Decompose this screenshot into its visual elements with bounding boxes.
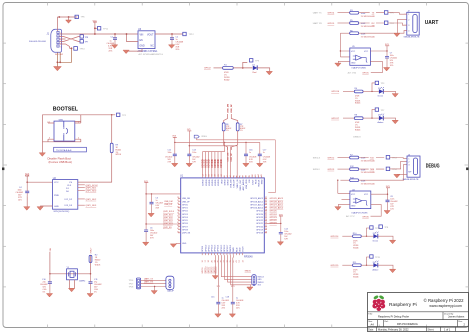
svg-text:3V3: 3V3 (258, 284, 261, 286)
svg-text:GND: GND (351, 206, 356, 208)
svg-text:46: 46 (177, 225, 179, 227)
svg-text:VCC: VCC (351, 51, 356, 53)
svg-text:GPIO6: GPIO6 (182, 223, 188, 225)
ground U4 (338, 205, 350, 207)
led row DBG green (331, 226, 396, 250)
wire USB_DM USB_DP to chip (227, 147, 230, 178)
LED D1 power led row (204, 59, 272, 82)
svg-text:25: 25 (265, 216, 267, 218)
svg-text:1: 1 (61, 33, 62, 35)
wire top pin stubs (203, 176, 262, 178)
svg-text:GND: GND (239, 247, 241, 252)
svg-text:QSPI_SD2: QSPI_SD2 (86, 199, 97, 201)
svg-text:SWDIO: SWDIO (313, 169, 320, 171)
ground under C4 (26, 196, 28, 207)
svg-text:GPIO6: GPIO6 (362, 216, 369, 218)
svg-text:A4: A4 (371, 322, 375, 326)
svg-text:SWD: SWD (262, 179, 264, 184)
test point TP7 (372, 110, 375, 119)
capacitor C10 (48, 282, 52, 284)
wire GND pin to ground (127, 49, 143, 52)
svg-text:USB_DM: USB_DM (164, 201, 173, 203)
svg-text:1u: 1u (263, 152, 265, 154)
svg-text:SWCLK: SWCLK (313, 157, 321, 159)
svg-text:GPIO4: GPIO4 (182, 217, 188, 219)
flash U2 (16, 173, 112, 213)
qspi net labels (78, 185, 85, 205)
svg-text:53: 53 (177, 206, 179, 208)
svg-text:EN: EN (140, 40, 144, 42)
svg-text:21: 21 (265, 225, 267, 227)
wire to ground (257, 68, 270, 72)
svg-text:Green: Green (378, 96, 384, 98)
svg-text:1% W1DS E0446: 1% W1DS E0446 (361, 16, 375, 18)
svg-text:GPIO11: GPIO11 (208, 267, 210, 274)
svg-text:50: 50 (177, 216, 179, 218)
wire IOVDD rail (203, 142, 225, 151)
svg-text:Amber: Amber (373, 268, 379, 271)
title block (368, 293, 469, 332)
svg-text:C18: C18 (226, 297, 229, 299)
DEBUG section (313, 137, 440, 186)
svg-text:1% W1DS E0446: 1% W1DS E0446 (361, 183, 375, 185)
svg-text:XOUT: XOUT (252, 179, 254, 185)
svg-text:GPIO5: GPIO5 (328, 23, 335, 25)
svg-text:GPIO20: GPIO20 (256, 226, 263, 228)
svg-text:GPIO26_ADC0: GPIO26_ADC0 (250, 207, 263, 210)
svg-text:W1DS: W1DS (95, 265, 101, 267)
svg-text:GND: GND (54, 206, 59, 208)
svg-text:ALT: NCV8164ASN330T1G: ALT: NCV8164ASN330T1G (139, 53, 164, 56)
test point TP6 (75, 15, 78, 18)
svg-text:VCC: VCC (351, 194, 356, 196)
UART section (313, 10, 439, 39)
uart pads connector J4 (129, 276, 175, 294)
svg-text:W25Q16JVUXIQ: W25Q16JVUXIQ (54, 211, 70, 213)
svg-text:IOVDD: IOVDD (215, 179, 217, 186)
svg-text:TP10: TP10 (80, 49, 86, 51)
svg-text:GPIO22: GPIO22 (256, 220, 263, 222)
svg-text:QSPI_SD0: QSPI_SD0 (163, 218, 174, 220)
svg-text:51: 51 (177, 213, 179, 215)
svg-text:UART_RX: UART_RX (144, 281, 154, 284)
svg-text:10%: 10% (390, 208, 394, 210)
resistor R6 (222, 123, 225, 131)
capacitor C11 (89, 282, 93, 284)
svg-text:48: 48 (177, 219, 179, 221)
svg-text:BOOTSEL: BOOTSEL (53, 106, 79, 112)
test point TP11 (95, 27, 97, 29)
svg-text:GPIO12: GPIO12 (212, 244, 214, 252)
svg-text:QSPI_SD3: QSPI_SD3 (86, 205, 97, 207)
svg-text:GPIO29_ADC3: GPIO29_ADC3 (270, 197, 285, 200)
svg-text:100R: 100R (361, 158, 366, 160)
svg-text:28: 28 (265, 209, 267, 211)
svg-text:20: 20 (265, 228, 267, 230)
svg-text:DVDD: DVDD (228, 179, 230, 185)
test point TP10 (367, 228, 370, 236)
svg-text:20%: 20% (236, 308, 240, 310)
wire and ground (383, 91, 395, 93)
output loop to GPIO5 label (370, 61, 382, 72)
svg-text:3: 3 (49, 138, 50, 140)
capacitor C13 (187, 154, 191, 156)
svg-text:SWD: SWD (233, 247, 235, 252)
svg-text:IOVDD: IOVDD (218, 179, 220, 186)
svg-text:GPIO15: GPIO15 (221, 244, 223, 252)
test point TP15 (367, 257, 370, 265)
svg-text:(Forces USB Boot): (Forces USB Boot) (49, 160, 73, 164)
ground U5 (338, 61, 350, 63)
test point TP5 (384, 11, 388, 15)
svg-text:USB_DM: USB_DM (227, 104, 229, 113)
svg-text:GPIO10: GPIO10 (205, 244, 207, 252)
wires (141, 280, 166, 286)
svg-text:VDD: VDD (221, 179, 223, 184)
svg-text:20%: 20% (176, 49, 180, 51)
svg-text:1% W1DS E0446: 1% W1DS E0446 (361, 161, 375, 163)
svg-text:100n: 100n (168, 152, 172, 154)
svg-text:47: 47 (177, 222, 179, 224)
wire VBUS from J1 pin1 up (58, 17, 78, 31)
svg-text:74AUP1T57GW6: 74AUP1T57GW6 (351, 212, 368, 215)
svg-text:GPIO5: GPIO5 (362, 73, 369, 75)
wires down to resistors (224, 114, 238, 123)
svg-text:SWCLK: SWCLK (230, 244, 232, 252)
wire bottom loop (43, 115, 81, 142)
ground J3 (397, 173, 407, 175)
svg-text:CLK: CLK (67, 185, 72, 187)
svg-text:GND: GND (140, 46, 145, 48)
svg-text:SWDIO: SWDIO (245, 271, 252, 273)
svg-text:E0446: E0446 (353, 248, 358, 250)
svg-text:GND: GND (182, 243, 187, 245)
wire and ground (383, 118, 395, 120)
svg-text:GPIO24: GPIO24 (256, 214, 263, 216)
svg-text:Amber: Amber (378, 121, 384, 124)
svg-text:20%: 20% (222, 308, 226, 310)
svg-text:DVDD: DVDD (224, 179, 226, 185)
svg-text:29: 29 (265, 206, 267, 208)
svg-text:GPIO19: GPIO19 (256, 230, 263, 232)
svg-text:100R: 100R (361, 180, 366, 182)
wire IOVDD pin risers (203, 152, 222, 176)
svg-text:RUN: RUN (255, 179, 257, 184)
led row UART RX (331, 108, 398, 131)
svg-text:55: 55 (177, 200, 179, 202)
svg-text:5: 5 (61, 47, 62, 49)
svg-text:30: 30 (265, 203, 267, 205)
wire VOUT (155, 33, 183, 35)
pin numbers J1 (61, 33, 62, 49)
capacitor C18 (231, 302, 235, 304)
svg-text:GPIO24: GPIO24 (270, 214, 278, 216)
wire 5V rail to regulator (60, 33, 138, 35)
svg-text:SM04B-SRSS-TB: SM04B-SRSS-TB (403, 179, 420, 181)
svg-text:E0446: E0446 (355, 129, 360, 131)
svg-text:74AUP1T34W6: 74AUP1T34W6 (351, 67, 366, 70)
svg-text:QSPI_SS: QSPI_SS (163, 227, 172, 229)
test point TP13 (386, 156, 390, 160)
row 3 (340, 32, 349, 34)
svg-text:E0446: E0446 (355, 103, 360, 105)
svg-text:Date:: Date: (368, 328, 374, 331)
svg-text:VCC: VCC (54, 182, 59, 184)
svg-text:56: 56 (177, 197, 179, 199)
crystal ground loop (70, 280, 75, 289)
regulator U3 (107, 28, 195, 56)
svg-text:USB_DP: USB_DP (182, 201, 190, 203)
ground (54, 67, 62, 71)
usb data pins wires crossing (60, 37, 81, 42)
svg-text:Rev:: Rev: (458, 321, 463, 323)
svg-text:GND: GND (351, 63, 356, 65)
svg-text:24: 24 (265, 219, 267, 221)
test point TP2 (117, 113, 120, 116)
svg-text:45: 45 (177, 228, 179, 230)
svg-text:43: 43 (177, 231, 179, 233)
svg-text:TP15: TP15 (375, 257, 381, 259)
svg-text:DEBUG: DEBUG (353, 137, 361, 139)
svg-text:VOUT: VOUT (243, 246, 245, 252)
led row DBG amber (331, 255, 396, 279)
BOOTSEL section (39, 106, 127, 182)
svg-text:GPIO27_ADC1: GPIO27_ADC1 (270, 204, 285, 207)
svg-text:52: 52 (177, 209, 179, 211)
svg-text:100R: 100R (361, 23, 366, 25)
svg-text:19: 19 (265, 231, 267, 233)
svg-text:James Adams: James Adams (448, 314, 465, 318)
wire to LED (233, 67, 252, 69)
svg-text:SM04B-SRSS-TB: SM04B-SRSS-TB (404, 37, 421, 39)
capacitor C6 (144, 230, 148, 232)
svg-text:54: 54 (177, 203, 179, 205)
svg-text:1%: 1% (240, 130, 243, 132)
resistor pack RZ1 (80, 35, 83, 38)
ground J2 pin2 (397, 20, 407, 34)
svg-text:GPIO5: GPIO5 (182, 220, 188, 222)
wire and ground (378, 265, 393, 269)
capacitor C1 (113, 38, 117, 40)
svg-text:GPIO16: GPIO16 (224, 244, 226, 252)
svg-text:UART_TX: UART_TX (144, 277, 154, 280)
svg-text:QSPI_SD2: QSPI_SD2 (163, 221, 174, 223)
svg-text:GPIO17: GPIO17 (331, 118, 340, 120)
ground TESTEN (176, 242, 178, 245)
svg-text:ALT: 1T34: ALT: 1T34 (348, 71, 356, 74)
svg-text:QSPI_SCLK: QSPI_SCLK (163, 211, 175, 213)
raspberry pi logo (372, 295, 385, 311)
power flag VREG_VIN (194, 135, 199, 138)
svg-text:GPIO25: GPIO25 (270, 211, 278, 213)
wires (50, 252, 91, 274)
svg-text:GPIO29_ADC3: GPIO29_ADC3 (250, 197, 263, 200)
svg-text:GPIO25: GPIO25 (256, 211, 263, 213)
test point TP9 (243, 62, 248, 68)
svg-text:GPIO9: GPIO9 (202, 245, 204, 252)
svg-text:USB_DP: USB_DP (231, 152, 233, 161)
svg-text:1%: 1% (226, 130, 229, 132)
ground (39, 153, 45, 157)
svg-text:GPIO27_ADC1: GPIO27_ADC1 (250, 204, 263, 207)
svg-text:QSPI_SCLK: QSPI_SCLK (86, 185, 99, 187)
svg-text:QSPI_SD1: QSPI_SD1 (163, 214, 174, 216)
svg-text:E0402: E0402 (224, 79, 229, 81)
svg-text:31: 31 (265, 200, 267, 202)
wire right pin stubs (264, 198, 267, 232)
svg-text:QSPI_SD0: QSPI_SD0 (86, 190, 97, 192)
svg-text:Raspberry Pi: Raspberry Pi (389, 302, 417, 308)
svg-text:Monday, February 28, 2022: Monday, February 28, 2022 (378, 328, 409, 331)
svg-text:GPIO2: GPIO2 (328, 157, 335, 159)
svg-text:© Raspberry Pi 2022: © Raspberry Pi 2022 (424, 298, 465, 303)
svg-text:UART TX: UART TX (313, 12, 322, 15)
connector J5 (252, 275, 256, 286)
svg-text:RPI-PICODEBUG: RPI-PICODEBUG (397, 322, 418, 326)
svg-text:C15: C15 (211, 297, 214, 299)
svg-text:GPIO3: GPIO3 (328, 169, 335, 171)
buffer U5 (335, 33, 397, 74)
svg-text:GPIO21: GPIO21 (256, 223, 263, 225)
svg-text:NC: NC (151, 46, 155, 48)
svg-text:GPIO2: GPIO2 (182, 211, 188, 213)
svg-text:UART: UART (425, 20, 439, 26)
svg-text:TP14: TP14 (392, 169, 398, 171)
svg-text:www.raspberrypi.com: www.raspberrypi.com (429, 304, 462, 308)
usb series resistors 27R (222, 104, 245, 162)
svg-text:4: 4 (78, 138, 79, 140)
svg-text:TS-1187A-B-A-B: TS-1187A-B-A-B (56, 149, 72, 152)
test point TP4 (384, 21, 388, 25)
connector body (166, 276, 174, 289)
svg-text:USB_DP: USB_DP (231, 104, 233, 113)
usb micro connector J1 (29, 15, 138, 71)
wire and ground (378, 236, 393, 240)
wires down to chip (224, 131, 238, 150)
capacitor C3 (150, 202, 154, 204)
svg-text:5%: 5% (43, 292, 46, 294)
led row UART TX (331, 81, 398, 105)
svg-text:23: 23 (265, 222, 267, 224)
svg-text:IOVDD: IOVDD (219, 159, 223, 167)
svg-text:RUN: RUN (236, 247, 238, 252)
svg-text:GPIO1: GPIO1 (182, 208, 188, 210)
wire bottom pin stubs (202, 253, 242, 255)
test point TP3 (372, 83, 375, 92)
ground under C2 (171, 43, 173, 45)
wire to debug header (221, 255, 251, 285)
svg-text:100R: 100R (361, 13, 366, 15)
svg-text:DEBUG: DEBUG (426, 163, 440, 169)
capacitor C4 (26, 181, 28, 183)
svg-text:PWD: PWD (54, 195, 60, 197)
svg-text:CS: CS (69, 182, 73, 184)
capacitor C17 (258, 154, 262, 156)
svg-text:GPIO23: GPIO23 (270, 217, 278, 219)
svg-text:GPIO28_ADC2: GPIO28_ADC2 (270, 200, 285, 203)
svg-text:VIN: VIN (140, 35, 144, 37)
svg-text:IOVDD: IOVDD (206, 179, 208, 186)
svg-text:GPIO22: GPIO22 (270, 220, 278, 222)
svg-text:GPIO12: GPIO12 (212, 267, 214, 274)
svg-text:1u: 1u (249, 152, 251, 154)
svg-text:TCK: TCK (370, 157, 375, 159)
svg-text:TP11: TP11 (103, 28, 109, 30)
svg-text:USB_VDD: USB_VDD (246, 179, 248, 189)
svg-text:GPIO2: GPIO2 (204, 68, 211, 70)
svg-text:27: 27 (265, 213, 267, 215)
resistor R9 (110, 143, 113, 153)
svg-text:500-003-250-466: 500-003-250-466 (29, 41, 47, 43)
svg-text:SWCLK: SWCLK (259, 179, 261, 187)
svg-text:IOVDD: IOVDD (203, 179, 205, 186)
capacitor C12 (173, 154, 177, 156)
crystal section (40, 247, 102, 297)
RP2040 U1 (143, 129, 292, 317)
svg-text:1: 1 (49, 122, 50, 124)
svg-text:UART RX: UART RX (313, 22, 323, 25)
svg-text:QSPI_SS: QSPI_SS (182, 233, 191, 235)
svg-text:USB_DP: USB_DP (164, 204, 173, 206)
svg-text:ALT: 1T57: ALT: 1T57 (346, 215, 354, 218)
svg-text:1% W1DS E0446: 1% W1DS E0446 (361, 36, 375, 38)
svg-text:1% W1DS E0446: 1% W1DS E0446 (361, 172, 375, 174)
output loop to GPIO6 label (370, 205, 381, 217)
svg-text:GPIO14: GPIO14 (331, 236, 340, 238)
svg-text:W1DS: W1DS (116, 154, 122, 156)
svg-text:GPIO26_ADC0: GPIO26_ADC0 (270, 207, 285, 210)
svg-text:GPIO7: GPIO7 (182, 226, 188, 228)
svg-text:GPIO28_ADC2: GPIO28_ADC2 (250, 200, 263, 203)
capacitor C15 (216, 302, 220, 304)
svg-text:Ref:: Ref: (385, 321, 389, 323)
svg-text:100n: 100n (192, 152, 196, 154)
part number box (54, 147, 87, 152)
svg-text:12MHz: 12MHz (79, 281, 86, 283)
capacitor C2 (170, 38, 174, 40)
svg-text:10%: 10% (390, 65, 394, 67)
svg-text:1% W1DS E0446: 1% W1DS E0446 (361, 26, 375, 28)
svg-text:GPIO23: GPIO23 (256, 217, 263, 219)
svg-text:GPIO0: GPIO0 (182, 205, 188, 207)
svg-text:IO2_D2: IO2_D2 (65, 199, 73, 201)
svg-text:USB_DM: USB_DM (182, 198, 190, 200)
wire left pin stubs (178, 198, 181, 243)
svg-text:100R: 100R (361, 169, 366, 171)
svg-text:CAB-3P: CAB-3P (167, 290, 175, 293)
resistor R2 (89, 255, 92, 262)
power flag 5V0 (94, 22, 96, 34)
svg-text:VOUT: VOUT (147, 35, 154, 37)
svg-text:Sheet:: Sheet: (428, 328, 435, 331)
svg-text:GPIO4: GPIO4 (328, 13, 335, 15)
ground under C1 (114, 43, 116, 45)
flash CS wire from bootsel (78, 181, 112, 183)
svg-text:QSPI_SD1: QSPI_SD1 (86, 188, 97, 190)
row 3 (340, 179, 349, 181)
svg-text:32: 32 (265, 197, 267, 199)
wire shield loop to ground (57, 48, 71, 66)
wire from TP junction down to flash CS (111, 115, 113, 143)
svg-text:SH1 SH2: SH1 SH2 (55, 54, 63, 56)
ground (68, 17, 70, 20)
test point TP14 (386, 167, 390, 171)
svg-text:GPIO11: GPIO11 (208, 244, 210, 252)
svg-text:GPIO13: GPIO13 (215, 244, 217, 252)
svg-text:USB_DM: USB_DM (231, 179, 233, 188)
svg-text:VREG_OUT: VREG_OUT (240, 179, 242, 191)
svg-text:XIN: XIN (249, 179, 251, 183)
